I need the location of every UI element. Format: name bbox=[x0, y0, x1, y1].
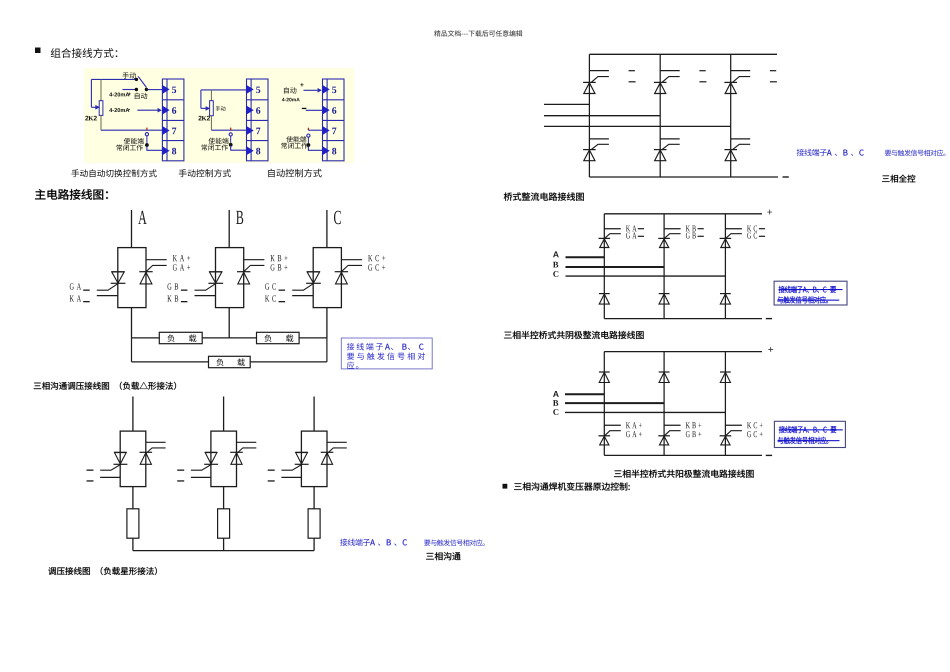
cathode lead KC- bbox=[292, 295, 313, 297]
label 使能端 bbox=[124, 138, 144, 144]
label 2K2 bbox=[85, 116, 97, 121]
wire 4-20mA- to terminal 6 bbox=[137, 109, 158, 111]
minus of GB bbox=[181, 290, 188, 291]
wire A to load3 bbox=[132, 361, 209, 363]
cathode stub VT4 bbox=[589, 138, 609, 140]
caption 共阴极 bbox=[504, 331, 643, 339]
cathode lead KB- bbox=[195, 295, 216, 297]
minus of GC- (cc) bbox=[759, 236, 765, 237]
label 4-20mA (d3) bbox=[282, 98, 300, 102]
label 常闭工作 (d3) bbox=[281, 143, 307, 149]
column A (common cathode) bbox=[603, 214, 605, 319]
label 4-20mA+ bbox=[109, 92, 129, 96]
thyristor VA triangle (cc) bbox=[600, 239, 609, 248]
phase line C bbox=[326, 210, 328, 248]
gate lead VT1 bbox=[591, 77, 609, 83]
gate lead VT5 bbox=[662, 144, 680, 149]
label GA- (cc) bbox=[626, 232, 637, 238]
diode DC2 triangle bbox=[720, 372, 730, 382]
terminal block TB1 outline bbox=[162, 79, 184, 161]
input label C (ca) bbox=[553, 409, 558, 415]
wire auto input bbox=[122, 89, 135, 91]
label 自动 (auto) bbox=[135, 93, 147, 99]
gate lead GB- bbox=[195, 284, 216, 291]
bottom bus (full bridge) bbox=[589, 176, 778, 178]
plus terminal (ca) bbox=[768, 347, 773, 352]
heading 三相沟通焊机变压器原边控制 bbox=[514, 482, 630, 490]
load resistor (star B) bbox=[218, 509, 230, 538]
minus of KC bbox=[279, 301, 286, 302]
revision note box (cc) bbox=[774, 281, 847, 305]
label GB+ bbox=[271, 264, 288, 270]
thyristor VC bar (ca) bbox=[720, 435, 732, 437]
top bus (common anode) bbox=[604, 351, 762, 353]
thyristor VB triangle (cc) bbox=[660, 239, 669, 248]
top bus (common cathode) bbox=[604, 213, 762, 215]
column C (common cathode) bbox=[724, 214, 726, 319]
gate lead GB- (cc) bbox=[665, 234, 681, 238]
left thyristor cathode bar (star A) bbox=[114, 463, 128, 465]
input line C (ca) bbox=[565, 411, 725, 413]
heading 组合接线方式 bbox=[51, 48, 118, 58]
float dash a col1 bbox=[629, 70, 635, 71]
load box 负载 3 bbox=[209, 356, 251, 367]
enable mark (red) bbox=[146, 128, 147, 131]
right thyristor triangle (star B) bbox=[231, 453, 242, 465]
cathode lead (star B) bbox=[237, 441, 257, 443]
wire resistor to star point (C) bbox=[313, 538, 315, 550]
terminal TB1 pin 5 bbox=[172, 87, 176, 94]
minus of GA- (cc) bbox=[638, 236, 644, 237]
wiper wire bbox=[91, 106, 96, 108]
cathode lead left (star A) bbox=[100, 476, 120, 478]
cathode stub VT1 bbox=[589, 70, 609, 72]
input phase line C (full bridge) bbox=[544, 125, 731, 127]
column B (common cathode) bbox=[663, 214, 665, 319]
arrowhead to terminal 5 bbox=[318, 88, 322, 93]
wire resistor to star point (A) bbox=[132, 538, 134, 550]
enable switch lever (d3) bbox=[307, 137, 309, 143]
label 手动 small (d2) bbox=[216, 106, 226, 111]
label 负 (load2) bbox=[264, 334, 271, 342]
wire C down to load3 row bbox=[326, 338, 328, 362]
wire to terminal 7 bbox=[101, 129, 162, 131]
switch S1 common pole bbox=[145, 88, 148, 91]
cathode lead left (star B) bbox=[191, 476, 211, 478]
caption 手动自动切换控制方式 bbox=[71, 169, 156, 177]
column C (ca) bbox=[724, 352, 726, 456]
bridge column 3 bbox=[730, 54, 732, 177]
thyristor VA bar (cc) bbox=[599, 237, 611, 239]
minus of KA- (cc) bbox=[638, 228, 644, 229]
plus terminal (common cathode) bbox=[767, 210, 772, 215]
input line A (ca) bbox=[565, 393, 604, 395]
terminal TB1 pin 7 bbox=[172, 128, 176, 134]
terminal TB1 pin 8 arrow bbox=[162, 146, 170, 155]
load box 负载 2 bbox=[257, 332, 300, 343]
phase label C bbox=[334, 211, 341, 224]
diode DB2 triangle bbox=[659, 372, 669, 382]
column B (ca) bbox=[663, 352, 665, 456]
star point bus bbox=[133, 550, 314, 552]
left thyristor top bar (star B) bbox=[205, 451, 218, 453]
wire to terminal 8 (d2) bbox=[231, 146, 247, 151]
phase line A bbox=[131, 210, 133, 248]
gate lead left (star C) bbox=[281, 465, 301, 471]
revision note box (ca) bbox=[774, 421, 845, 447]
minus of KC- (cc) bbox=[759, 228, 765, 229]
thyristor VA triangle (ca) bbox=[600, 436, 609, 445]
terminal TB1 pin 6 arrow bbox=[162, 105, 170, 114]
label KA- (cc) bbox=[626, 225, 637, 231]
terminal TB3 pin 5 bbox=[332, 87, 336, 94]
label KA+ (ca) bbox=[626, 422, 642, 428]
minus sign (d3) bbox=[302, 108, 307, 109]
caption 调压接线图 bbox=[48, 567, 156, 575]
top bus (full bridge) bbox=[589, 53, 777, 55]
phase label B bbox=[236, 211, 243, 224]
left thyristor triangle (star A) bbox=[115, 453, 127, 464]
gate lead right (star B) bbox=[237, 448, 256, 454]
bridge column 1 bbox=[588, 54, 590, 177]
thyristor VC2 triangle bbox=[336, 272, 348, 284]
thyristor VC triangle (cc) bbox=[721, 239, 730, 248]
label KA+ bbox=[173, 255, 190, 261]
note text line2 (delta) bbox=[347, 352, 425, 359]
diode DC cathode bar bbox=[720, 293, 731, 295]
label 使能端 (d2) bbox=[209, 138, 229, 144]
cathode lead (star A) bbox=[146, 441, 166, 443]
load resistor (star A) bbox=[127, 509, 139, 538]
revision note line1 (cc) bbox=[779, 286, 836, 293]
gate lead GA- (cc) bbox=[605, 234, 621, 238]
label KC+ bbox=[368, 255, 385, 261]
label GA+ bbox=[173, 264, 190, 270]
load box 负载 1 bbox=[159, 332, 202, 343]
gate lead VT2 bbox=[662, 77, 680, 83]
thyristor module A (star) bbox=[120, 431, 146, 487]
thyristor VB2 cathode bar bbox=[237, 271, 250, 273]
enable mark red (d3) bbox=[308, 128, 309, 131]
terminal TB3 pin 8 bbox=[332, 148, 336, 155]
minus of GB- (cc) bbox=[698, 236, 704, 237]
thyristor VB bar (ca) bbox=[658, 435, 670, 437]
label KC bbox=[265, 295, 276, 301]
module B bottom wire bbox=[228, 308, 230, 338]
label KB bbox=[167, 295, 178, 301]
cathode bar VT4 bbox=[583, 149, 596, 151]
potentiometer 2K2 body bbox=[99, 101, 103, 116]
float dash b col2 bbox=[699, 81, 706, 82]
wire A down to load3 row bbox=[131, 338, 133, 362]
left thyristor top bar (star A) bbox=[114, 451, 127, 453]
thyristor VB bar (cc) bbox=[658, 237, 670, 239]
terminal TB2 pin 8 arrow bbox=[246, 146, 254, 155]
module A bottom wire bbox=[131, 308, 133, 338]
wire to terminal 5 bbox=[148, 89, 163, 91]
diode DA cathode bar bbox=[599, 293, 610, 295]
terminal TB3 pin 7 bbox=[332, 128, 336, 134]
cathode stub VT2 bbox=[660, 70, 680, 72]
bullet square bbox=[503, 484, 508, 489]
input phase line A (full bridge) bbox=[544, 103, 589, 105]
input line B (cc) bbox=[566, 266, 665, 268]
thyristor VA bar (ca) bbox=[599, 435, 611, 437]
wire module to resistor (star C) bbox=[313, 487, 315, 509]
minus terminal (cc) bbox=[766, 318, 772, 319]
cathode lead left (star C) bbox=[281, 476, 301, 478]
thyristor VB1 anode bar bbox=[209, 271, 222, 273]
wire - to terminal 6 bbox=[306, 109, 323, 111]
input label B (cc) bbox=[553, 262, 558, 268]
cathode lead KB+ bbox=[244, 259, 265, 261]
bottom bus (ca) bbox=[604, 454, 762, 456]
arrowhead to terminal 6 bbox=[158, 108, 162, 113]
load resistor (star C) bbox=[308, 509, 320, 538]
minus of GA bbox=[83, 290, 90, 291]
input line A (cc) bbox=[566, 256, 605, 258]
label GB+ (ca) bbox=[686, 431, 701, 437]
terminal TB2 pin 5 bbox=[256, 87, 260, 94]
label 手动 (manual) bbox=[123, 72, 136, 78]
wire to terminal 8 (d3) bbox=[308, 146, 322, 150]
bridge column 2 bbox=[659, 54, 661, 177]
right thyristor bar (star C) bbox=[321, 451, 334, 453]
gate stub dash (star C) bbox=[268, 470, 275, 471]
note text (star) tail bbox=[424, 539, 485, 546]
label 2K2 (d2) bbox=[198, 116, 210, 121]
gate lead GC- (cc) bbox=[726, 234, 742, 238]
wiper arrow bbox=[95, 105, 100, 110]
note (full bridge) tail bbox=[885, 150, 946, 157]
label GC bbox=[265, 283, 276, 289]
cathode stub dash (star C) bbox=[268, 480, 275, 481]
gate lead GA+ (ca) bbox=[605, 431, 621, 436]
heading 主电路接线图 bbox=[35, 189, 108, 200]
float dash a col2 bbox=[699, 70, 705, 71]
label 自动 (d3) bbox=[284, 87, 296, 93]
thyristor VA1 anode bar bbox=[111, 271, 124, 273]
cathode lead KA- bbox=[97, 295, 118, 297]
cathode stub KB+ (ca) bbox=[664, 424, 681, 426]
left thyristor triangle (star C) bbox=[296, 453, 308, 464]
gate lead GC- bbox=[292, 284, 313, 291]
caption 三相沟通调压接线图 bbox=[34, 382, 176, 390]
caption 共阳极 bbox=[614, 470, 753, 478]
cathode bar VT6 bbox=[724, 149, 737, 151]
thyristor VT6 triangle bbox=[725, 150, 736, 161]
enable switch pole (d2) bbox=[229, 143, 233, 147]
gate lead GC+ bbox=[342, 265, 362, 271]
thyristor VB1 cathode bar bbox=[208, 282, 223, 284]
minus of KA bbox=[83, 301, 90, 302]
revision note line2 (ca) bbox=[778, 437, 828, 444]
label 载 (load2) bbox=[286, 334, 293, 342]
label KB+ (ca) bbox=[686, 422, 701, 428]
label 载 (load3) bbox=[237, 358, 244, 366]
caption 桥式整流电路接线图 bbox=[504, 192, 584, 200]
revision note line2 (cc) bbox=[778, 296, 828, 303]
cathode stub KA+ (ca) bbox=[604, 424, 621, 426]
terminal TB3 pin 5 arrow bbox=[322, 85, 330, 94]
wire A to load1 bbox=[132, 337, 160, 339]
wire pot bottom (d2) bbox=[210, 116, 212, 131]
note box border (delta) bbox=[341, 338, 432, 369]
wire module to resistor (star A) bbox=[132, 487, 134, 509]
phase line B bbox=[228, 210, 230, 248]
gate lead GB+ (ca) bbox=[665, 431, 681, 436]
label 负 (load1) bbox=[167, 334, 174, 342]
diode DA2 cathode bar bbox=[599, 371, 610, 373]
terminal TB1 pin 6 bbox=[172, 107, 176, 114]
label 载 (load1) bbox=[189, 334, 196, 342]
thyristor VB2 triangle bbox=[238, 272, 250, 284]
label GB- (cc) bbox=[686, 232, 696, 238]
thyristor VT1 triangle bbox=[584, 83, 595, 94]
bottom bus (cc) bbox=[604, 318, 762, 320]
wire load2 to C bbox=[299, 337, 327, 339]
note text (star) bbox=[340, 539, 407, 546]
column A (ca) bbox=[603, 352, 605, 456]
wire manual top rail bbox=[91, 78, 135, 80]
label GC+ (ca) bbox=[747, 431, 762, 437]
strike line2 (cc) bbox=[777, 300, 839, 301]
diode DC triangle bbox=[720, 294, 730, 304]
enable switch circle (d2) bbox=[229, 133, 232, 136]
gate stub dash (star A) bbox=[87, 470, 94, 471]
diode DB triangle bbox=[659, 294, 669, 304]
diode DB2 cathode bar bbox=[659, 371, 670, 373]
diode DA2 triangle bbox=[599, 372, 609, 382]
cathode bar VT2 bbox=[654, 81, 667, 83]
cathode bar VT3 bbox=[724, 81, 737, 83]
phase label A bbox=[138, 211, 146, 224]
label 使能端 (d3) bbox=[286, 136, 306, 142]
minus of GC bbox=[279, 290, 286, 291]
label GC- (cc) bbox=[747, 232, 757, 238]
label 常闭工作 bbox=[116, 144, 142, 150]
thyristor VA1 triangle bbox=[112, 272, 124, 283]
gate lead VT6 bbox=[733, 144, 751, 149]
terminal TB1 pin 7 arrow bbox=[162, 126, 170, 135]
cathode lead KA+ bbox=[146, 259, 167, 261]
thyristor module B bbox=[216, 248, 244, 308]
left thyristor top bar (star C) bbox=[295, 451, 308, 453]
terminal TB3 pin 6 bbox=[332, 107, 336, 114]
note text line3 (delta) bbox=[347, 362, 358, 369]
wire resistor to star point (B) bbox=[223, 538, 225, 550]
plus sign (d3) bbox=[300, 83, 303, 86]
enable switch circle bbox=[145, 133, 148, 136]
enable switch pole bbox=[145, 143, 149, 147]
minus terminal (ca) bbox=[766, 455, 772, 456]
wire pot bottom bbox=[100, 115, 102, 130]
label 三相沟通 bbox=[426, 552, 460, 560]
header text bbox=[434, 30, 522, 36]
cathode stub VT3 bbox=[731, 70, 751, 72]
input phase line B (full bridge) bbox=[544, 115, 660, 117]
label GA bbox=[70, 283, 81, 289]
thyristor VT5 triangle bbox=[655, 150, 666, 161]
enable switch lever bbox=[146, 136, 148, 144]
label KB+ bbox=[270, 255, 287, 261]
cathode stub KA- (cc) bbox=[604, 228, 621, 230]
terminal TB2 pin 5 arrow bbox=[246, 85, 254, 94]
thyristor module B (star) bbox=[211, 431, 237, 487]
float dash b col1 bbox=[629, 81, 636, 82]
minus terminal (full bridge) bbox=[783, 176, 789, 177]
diode DA triangle bbox=[599, 294, 609, 304]
minus of KB bbox=[181, 301, 188, 302]
enable switch pole (d3) bbox=[307, 143, 311, 147]
wiper arrow (d2) bbox=[206, 106, 211, 111]
terminal block TB3 outline bbox=[323, 79, 345, 161]
cathode stub KB- (cc) bbox=[664, 228, 681, 230]
wire + to terminal 5 bbox=[304, 89, 319, 91]
gate lead right (star A) bbox=[146, 448, 166, 454]
cathode stub VT6 bbox=[731, 138, 751, 140]
gate lead VT3 bbox=[733, 77, 751, 83]
float dash a col3 bbox=[770, 70, 776, 71]
terminal TB2 pin 7 arrow bbox=[246, 126, 254, 135]
cathode stub KC- (cc) bbox=[725, 228, 742, 230]
cathode lead (star C) bbox=[327, 441, 347, 443]
cathode bar VT1 bbox=[583, 81, 596, 83]
switch S1 lever bbox=[138, 76, 146, 87]
minus of KB- (cc) bbox=[698, 228, 704, 229]
phase line C (star) bbox=[313, 397, 315, 432]
thyristor VT3 triangle bbox=[725, 83, 736, 94]
section bullet bbox=[35, 48, 41, 54]
input label C (cc) bbox=[553, 271, 558, 277]
gate lead GB+ bbox=[244, 265, 264, 271]
terminal TB3 pin 6 arrow bbox=[322, 105, 330, 114]
thyristor module A bbox=[118, 248, 146, 308]
thyristor module C (star) bbox=[301, 431, 327, 487]
label 常闭工作 (d2) bbox=[201, 144, 227, 150]
wire left vertical to wiper bbox=[90, 79, 92, 107]
switch S1 contact auto bbox=[135, 88, 138, 91]
wire to terminal 7 (d3) bbox=[308, 129, 322, 131]
input line C (cc) bbox=[566, 275, 726, 277]
thyristor module C bbox=[313, 248, 341, 308]
potentiometer 2K2 body (d2) bbox=[210, 101, 214, 116]
note text line1 (delta) bbox=[347, 343, 424, 350]
thyristor VB1 triangle bbox=[210, 272, 222, 283]
input label A (cc) bbox=[553, 251, 559, 257]
wire left vertical bbox=[200, 90, 202, 109]
control diagrams background panel bbox=[84, 68, 354, 163]
label GA+ (ca) bbox=[626, 431, 642, 437]
thyristor VA1 cathode bar bbox=[111, 282, 126, 284]
thyristor VT2 triangle bbox=[655, 83, 666, 94]
label KB- (cc) bbox=[686, 226, 696, 232]
switch S1 contact manual bbox=[135, 78, 138, 81]
enable switch circle (d3) bbox=[307, 134, 310, 137]
input line B (ca) bbox=[565, 402, 664, 404]
gate stub dash (star B) bbox=[177, 470, 184, 471]
gate lead right (star C) bbox=[327, 448, 347, 454]
left thyristor cathode bar (star B) bbox=[204, 463, 218, 465]
label 三相全控 bbox=[882, 175, 915, 183]
thyristor VC2 cathode bar bbox=[335, 271, 348, 273]
strike line1 (ca) bbox=[779, 429, 843, 430]
thyristor VC1 anode bar bbox=[307, 271, 320, 273]
thyristor VC1 triangle bbox=[307, 272, 319, 283]
gate lead GA+ bbox=[146, 265, 166, 271]
phase line B (star) bbox=[223, 397, 225, 432]
thyristor VT4 triangle bbox=[584, 150, 595, 161]
